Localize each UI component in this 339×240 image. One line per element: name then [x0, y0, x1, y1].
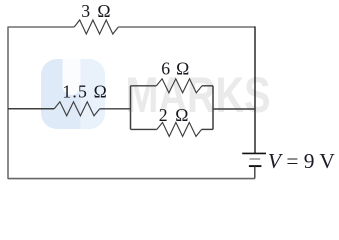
resistor R3 — [156, 79, 202, 93]
battery V1 plate + (long) — [242, 152, 266, 154]
wire left edge — [7, 27, 9, 180]
resistor R1 — [74, 20, 118, 34]
wire top-left (from top-left corner to R1) — [8, 26, 74, 28]
svg-text:1.5 Ω: 1.5 Ω — [62, 82, 108, 102]
wire middle-right (box to right edge) — [213, 108, 255, 110]
svg-text:2 Ω: 2 Ω — [159, 105, 190, 125]
svg-text:MARKS: MARKS — [126, 67, 271, 123]
wire bottom branch right stub — [202, 128, 213, 130]
wire right edge (top corner down to battery) — [254, 27, 256, 154]
wire middle-left (left edge to R2) — [8, 108, 54, 110]
watermark — [41, 59, 271, 129]
wire bottom branch left stub — [131, 128, 157, 130]
wire top branch left stub — [131, 85, 157, 87]
wire bottom — [8, 178, 255, 180]
wire middle (R2 to parallel box) — [100, 108, 131, 110]
battery V1 middle plate (gray) — [250, 158, 261, 160]
resistor R4 — [157, 122, 202, 136]
resistor R2 — [54, 102, 99, 116]
svg-text:6 Ω: 6 Ω — [161, 58, 190, 78]
wire top-right (from R1 to top-right corner) — [118, 26, 255, 28]
wire top branch right stub — [202, 85, 213, 87]
svg-text:V = 9 V: V = 9 V — [268, 149, 335, 173]
node right bar of parallel box — [212, 86, 214, 130]
wire battery to bottom — [254, 167, 256, 179]
battery V1 plate - (short) — [249, 165, 262, 167]
node left bar of parallel box — [130, 86, 132, 130]
svg-text:3 Ω: 3 Ω — [81, 1, 112, 21]
